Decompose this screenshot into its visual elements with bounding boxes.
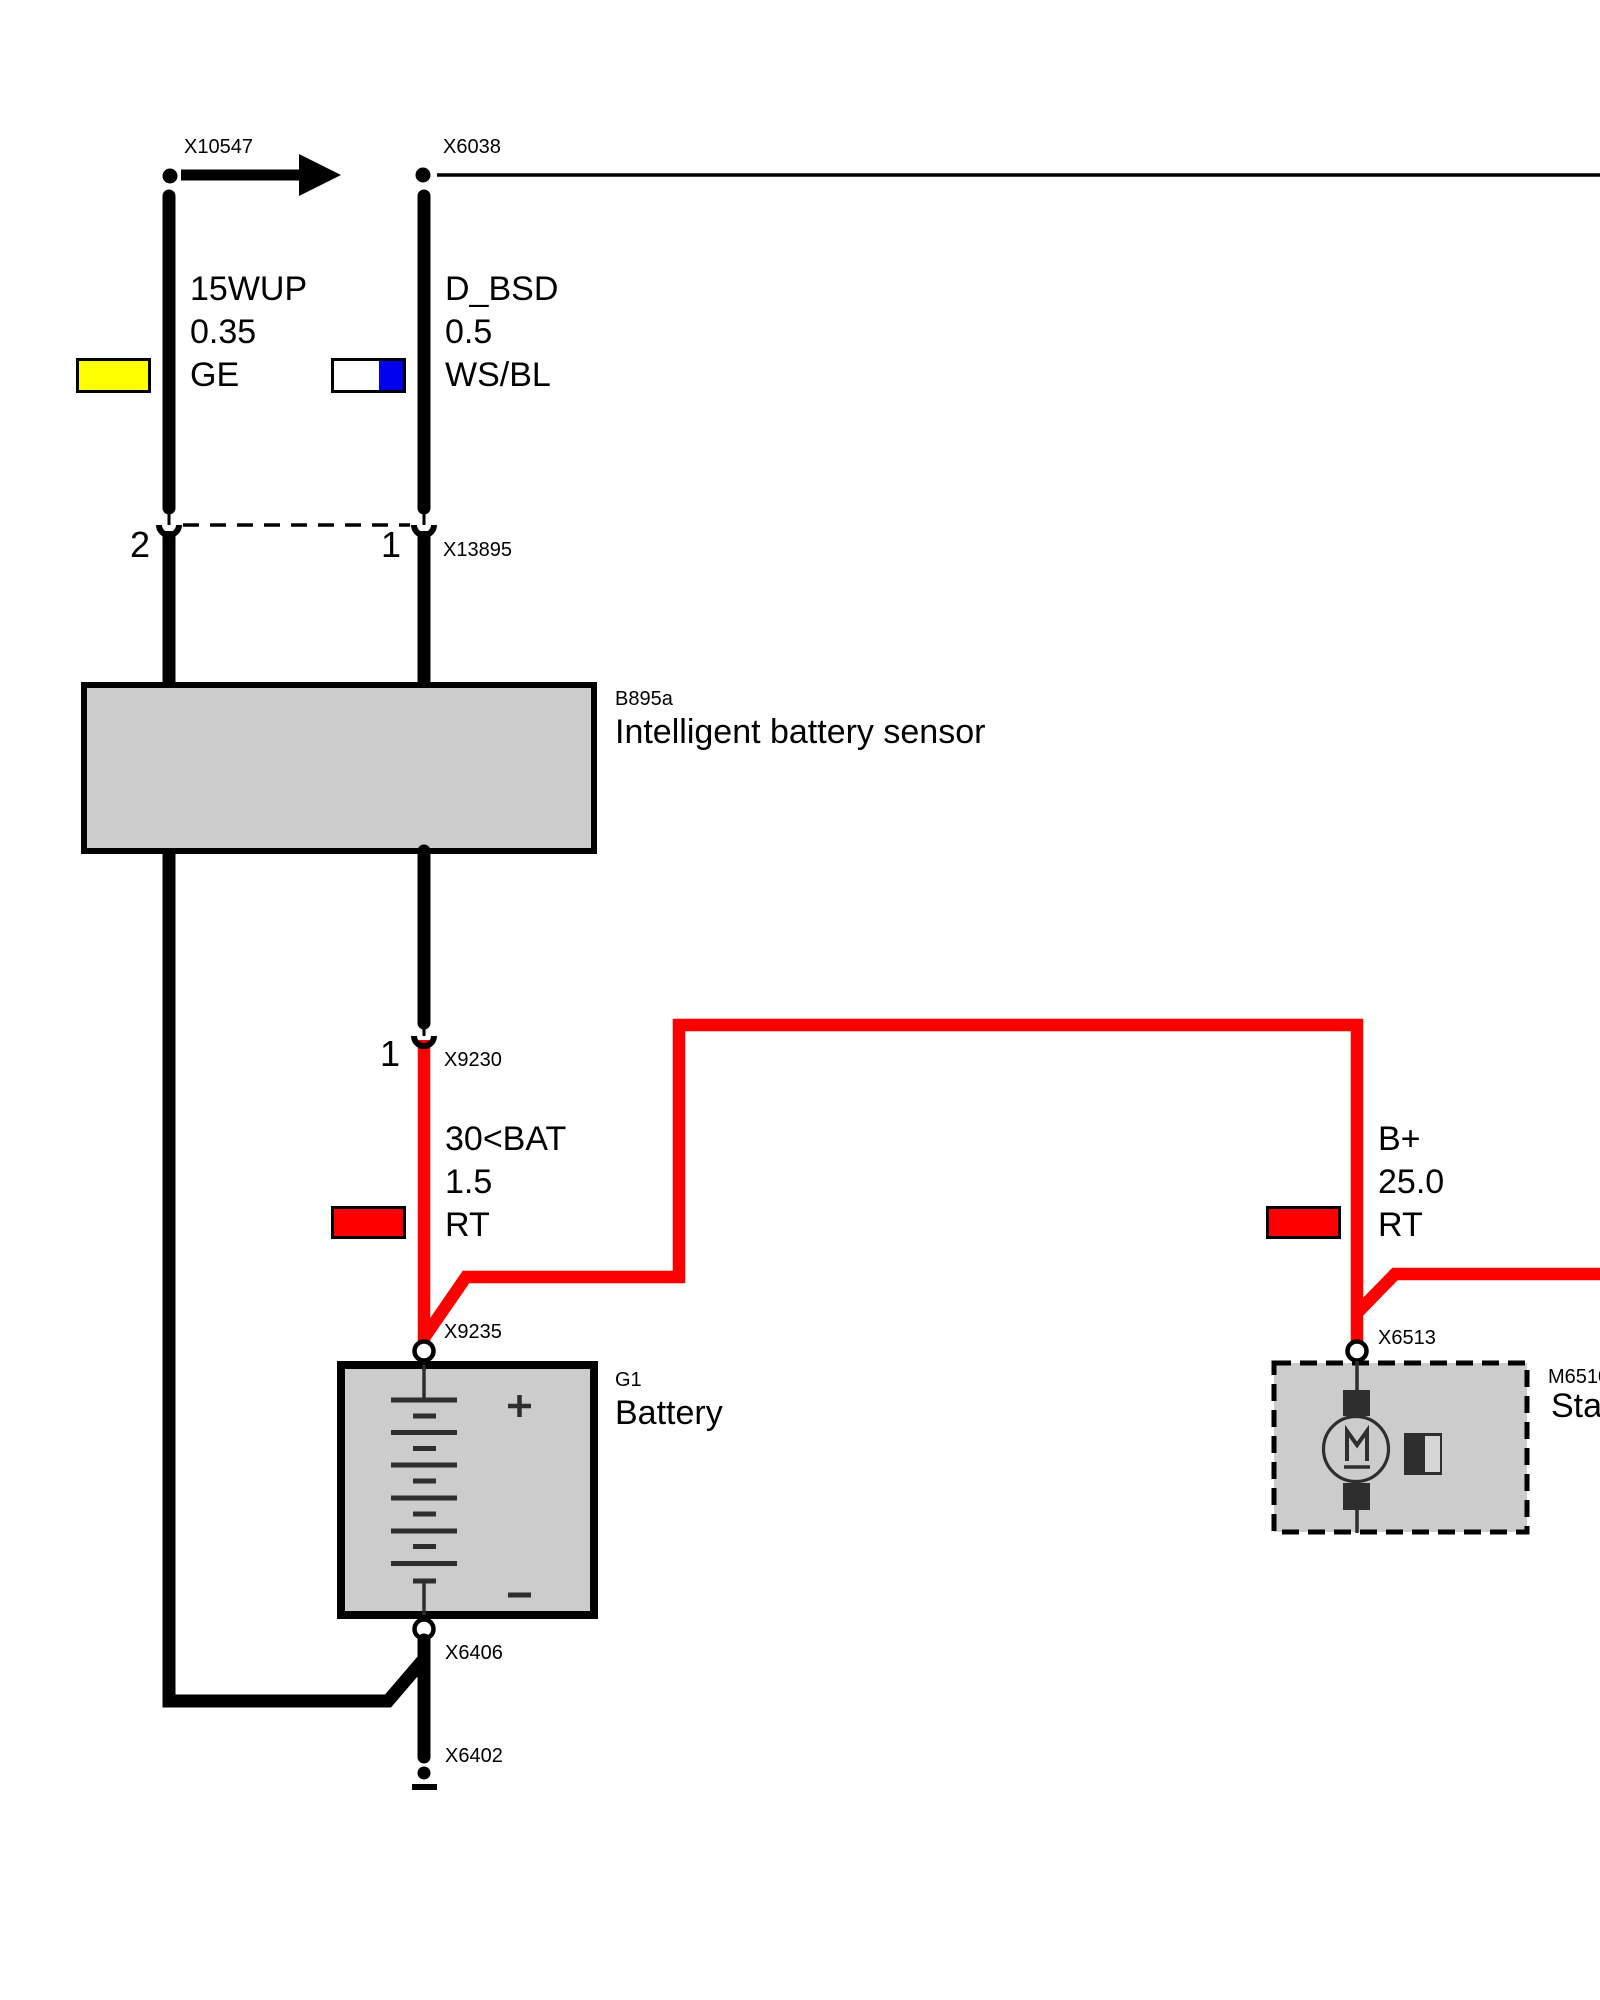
ground point X6402 dot: [418, 1767, 431, 1780]
svg-text:1: 1: [380, 1033, 400, 1074]
starter motor symbol: [1324, 1361, 1389, 1533]
pin tick at X9230: [423, 1021, 426, 1036]
arrow head: [299, 154, 341, 196]
svg-text:1: 1: [381, 524, 401, 565]
svg-text:15WUP: 15WUP: [190, 270, 307, 308]
wire D_BSD lower segment to sensor: [418, 531, 431, 688]
component M6510 Starter motor dashed box: [1274, 1363, 1527, 1532]
battery plus sign: [508, 1395, 531, 1417]
wire 15WUP upper segment: [163, 196, 176, 508]
ground wire from sensor to X6406 (left loop): [169, 851, 424, 1701]
svg-text:Battery: Battery: [615, 1394, 723, 1432]
node X10547 junction dot: [163, 169, 178, 184]
svg-text:X6513: X6513: [1378, 1327, 1436, 1349]
svg-text:Starter motor: Starter motor: [1551, 1387, 1600, 1425]
svg-text:RT: RT: [1378, 1206, 1423, 1244]
component G1 Battery box: [341, 1365, 594, 1615]
svg-text:0.35: 0.35: [190, 313, 256, 351]
connector socket pin 1 X9230: [414, 1036, 434, 1046]
svg-text:GE: GE: [190, 356, 239, 394]
node X6038 junction dot: [416, 168, 431, 183]
svg-text:2: 2: [130, 524, 150, 565]
svg-text:X6406: X6406: [445, 1642, 503, 1664]
battery minus sign: [508, 1593, 531, 1598]
colour chip RT (red) right: [1268, 1208, 1340, 1238]
connector socket pin 1 X13895: [414, 525, 434, 535]
svg-text:G1: G1: [615, 1369, 642, 1391]
svg-text:25.0: 25.0: [1378, 1163, 1444, 1201]
svg-text:0.5: 0.5: [445, 313, 492, 351]
wire 15WUP lower segment to sensor: [163, 531, 176, 688]
red wire branch to right edge: [1357, 1274, 1600, 1313]
arrow (off-page connector) shaft: [181, 170, 300, 181]
battery symbol: [391, 1365, 457, 1615]
terminal circle X6406: [415, 1620, 434, 1639]
red wire 30<BAT from X9230 to battery X9235: [418, 1040, 431, 1342]
red wire branch battery to starter B+: [424, 1025, 1357, 1341]
svg-text:WS/BL: WS/BL: [445, 356, 551, 394]
svg-text:RT: RT: [445, 1206, 490, 1244]
connector X13895 dashed line: [183, 523, 410, 527]
svg-text:B+: B+: [1378, 1120, 1421, 1158]
svg-text:B895a: B895a: [615, 688, 674, 710]
component B895a Intelligent battery sensor box: [84, 685, 594, 851]
svg-text:X9230: X9230: [444, 1049, 502, 1071]
svg-text:1.5: 1.5: [445, 1163, 492, 1201]
terminal circle X6513: [1348, 1342, 1367, 1361]
svg-text:X10547: X10547: [184, 136, 253, 158]
connector socket pin 2 X13895: [159, 525, 179, 535]
wire sensor to X9230: [418, 851, 431, 1023]
wire D_BSD upper segment: [418, 196, 431, 508]
colour chip RT (red) left: [333, 1208, 405, 1238]
svg-text:X13895: X13895: [443, 539, 512, 561]
svg-text:M6510a: M6510a: [1548, 1366, 1600, 1388]
svg-text:D_BSD: D_BSD: [445, 270, 558, 308]
colour chip WS/BL (white/blue): [333, 360, 405, 392]
colour chip GE (yellow): [78, 360, 150, 392]
wire X6406 to X6402: [418, 1640, 431, 1757]
svg-text:Intelligent battery sensor: Intelligent battery sensor: [615, 713, 985, 751]
terminal circle X9235: [415, 1342, 434, 1361]
svg-text:X9235: X9235: [444, 1321, 502, 1343]
pin tick wire D_BSD at X13895: [423, 510, 426, 525]
svg-text:30<BAT: 30<BAT: [445, 1120, 566, 1158]
svg-text:X6402: X6402: [445, 1745, 503, 1767]
wire from X6038 to right edge: [437, 173, 1600, 177]
ground point X6402 bar: [412, 1784, 437, 1790]
starter brush symbol: [1404, 1433, 1442, 1475]
svg-text:X6038: X6038: [443, 136, 501, 158]
pin tick wire 15WUP at X13895: [168, 510, 171, 525]
